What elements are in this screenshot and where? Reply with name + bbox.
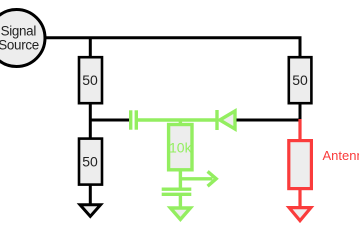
wire black vertical from R2 bottom to junction xyxy=(299,103,302,120)
wire red vertical from junction to antenna resistor xyxy=(298,119,301,141)
ground red xyxy=(289,208,311,221)
wire mid horizontal black to capacitor C1 xyxy=(89,119,131,122)
wire green stub down to R4 xyxy=(179,120,182,126)
capacitor C2 green horizontal plates xyxy=(162,189,192,194)
wire red from R5 bottom to ground xyxy=(298,189,301,208)
svg-text:50: 50 xyxy=(82,153,98,169)
wire green from C2 to ground xyxy=(179,194,182,209)
resistor R3 50 xyxy=(79,139,102,185)
antenna resistor R5 xyxy=(289,141,312,189)
resistor R4 10k xyxy=(169,125,193,170)
wire top horizontal from source to right corner down to R2 xyxy=(45,38,300,58)
wire green below R4 to capacitor C2 xyxy=(179,170,182,190)
svg-text:50: 50 xyxy=(292,72,308,88)
ground green xyxy=(170,208,190,219)
capacitor C1 green vertical plates xyxy=(131,110,137,129)
svg-text:Signal: Signal xyxy=(1,23,37,38)
signal arrow green xyxy=(180,171,216,186)
wire green horizontal from C1 to diode cathode xyxy=(138,118,217,121)
resistor R1 50 xyxy=(79,57,102,103)
wire vertical from R1 bottom through junction to R3 top xyxy=(89,103,92,139)
svg-text:50: 50 xyxy=(82,72,98,88)
diode D1 xyxy=(217,110,235,130)
signal source V1 xyxy=(0,10,45,67)
svg-text:Antenna: Antenna xyxy=(323,148,359,163)
wire black from R3 bottom to ground xyxy=(89,185,92,206)
resistor R2 50 xyxy=(289,57,312,103)
svg-text:10k: 10k xyxy=(169,139,193,155)
svg-text:Source: Source xyxy=(0,38,39,53)
wire black from diode anode to right junction xyxy=(237,119,302,122)
ground black xyxy=(80,205,101,217)
wire left branch stub from top wire to R1 xyxy=(89,38,92,58)
